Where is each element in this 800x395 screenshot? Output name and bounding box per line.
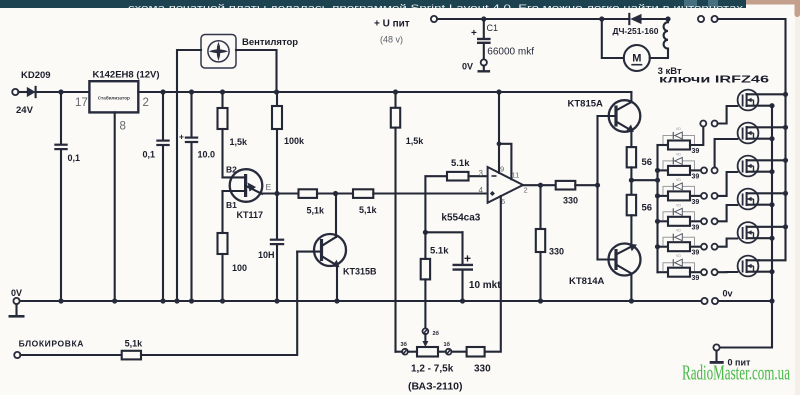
capacitor 10.0 electrolytic bbox=[189, 89, 194, 94]
svg-text:B2: B2 bbox=[226, 165, 237, 175]
diode ДЧ-251-160 bbox=[599, 16, 604, 21]
wire gate row 6 connector bbox=[690, 271, 701, 273]
svg-text:+: + bbox=[179, 132, 184, 142]
capacitor 0,1 output bbox=[160, 89, 165, 94]
svg-text:0,1: 0,1 bbox=[68, 153, 81, 163]
svg-text:+ U пит: + U пит bbox=[374, 19, 410, 30]
svg-text:9: 9 bbox=[500, 165, 504, 174]
ground 0 пит bbox=[715, 351, 717, 362]
wire +U to diode bbox=[437, 18, 629, 20]
0v rail right segment bbox=[718, 300, 772, 302]
wire blocking to KT315B base bbox=[141, 252, 297, 355]
ground C1 bbox=[483, 66, 485, 71]
svg-text:5,1k: 5,1k bbox=[359, 205, 378, 215]
op-amp U1 k554ca3 bbox=[488, 167, 523, 203]
node output bbox=[523, 184, 556, 186]
wire gate row 5 connector bbox=[690, 246, 701, 248]
svg-text:1,2 - 7,5k: 1,2 - 7,5k bbox=[411, 364, 454, 375]
transistor VT1 IRFZ46 bbox=[738, 90, 759, 111]
resistor 5,1k blocking bbox=[20, 354, 121, 356]
transistor KT315B bbox=[314, 234, 346, 266]
wire pin6 down bbox=[485, 196, 501, 352]
svg-text:39: 39 bbox=[692, 148, 700, 155]
svg-text:1,5k: 1,5k bbox=[406, 136, 425, 146]
svg-text:3: 3 bbox=[479, 169, 484, 178]
gate resistor bus bbox=[656, 145, 658, 272]
svg-text:VD: VD bbox=[676, 178, 681, 182]
svg-text:VD: VD bbox=[676, 254, 681, 258]
svg-text:VD: VD bbox=[676, 127, 681, 131]
resistor 56 lower bbox=[627, 195, 636, 216]
transistor VT5 IRFZ46 bbox=[738, 222, 759, 243]
svg-text:0V: 0V bbox=[462, 62, 473, 72]
diode VD3 gate bbox=[663, 186, 695, 195]
svg-text:E: E bbox=[266, 182, 272, 192]
resistor R2 39 gate bbox=[658, 169, 669, 171]
svg-text:39: 39 bbox=[692, 199, 700, 206]
svg-text:39: 39 bbox=[692, 173, 700, 180]
svg-text:10.0: 10.0 bbox=[198, 150, 216, 160]
wire gate row 2 connector bbox=[690, 169, 701, 171]
svg-text:ключи IRFZ46: ключи IRFZ46 bbox=[659, 75, 770, 86]
node driver bases bbox=[595, 183, 600, 188]
svg-text:3б: 3б bbox=[401, 341, 408, 348]
svg-text:100k: 100k bbox=[284, 136, 305, 146]
transistor VT3 IRFZ46 bbox=[738, 156, 759, 177]
wire B1 to resistor 100 bbox=[221, 191, 223, 233]
node RC junction bbox=[423, 230, 428, 235]
svg-text:8: 8 bbox=[120, 121, 126, 133]
svg-text:0v: 0v bbox=[723, 289, 733, 299]
svg-text:5.1k: 5.1k bbox=[451, 158, 470, 169]
svg-text:Вентилятор: Вентилятор bbox=[242, 37, 298, 48]
potentiometer 1,2-7,5k bbox=[417, 347, 438, 357]
terminal 0 пит bbox=[713, 344, 719, 350]
svg-text:5,1k: 5,1k bbox=[125, 339, 144, 349]
capacitor 10H bbox=[276, 194, 278, 239]
resistor 5.1k timing bbox=[421, 259, 430, 280]
wire fan right to +12V rail bbox=[236, 50, 277, 92]
svg-text:KT814A: KT814A bbox=[569, 276, 605, 287]
svg-text:K142EH8 (12V): K142EH8 (12V) bbox=[93, 70, 160, 81]
svg-text:VD: VD bbox=[676, 152, 681, 156]
svg-text:56: 56 bbox=[642, 203, 653, 214]
svg-text:39: 39 bbox=[692, 224, 700, 231]
terminal БЛОКИРОВКА bbox=[14, 352, 20, 358]
svg-text:RadioMaster.com.ua: RadioMaster.com.ua bbox=[682, 361, 790, 385]
diode KD209 bbox=[27, 87, 36, 97]
wire gate row 3 connector bbox=[690, 195, 701, 197]
svg-text:(ВАЗ-2110): (ВАЗ-2110) bbox=[408, 381, 463, 393]
resistor R1 39 gate bbox=[658, 144, 669, 146]
svg-text:10 mkt: 10 mkt bbox=[469, 280, 501, 291]
terminal 0V C1 bbox=[481, 59, 487, 65]
svg-text:1б: 1б bbox=[444, 341, 451, 348]
resistor 5,1k second bbox=[353, 189, 373, 198]
svg-text:17: 17 bbox=[75, 97, 88, 109]
svg-text:2: 2 bbox=[524, 186, 528, 195]
wire emitter line bbox=[262, 192, 299, 194]
ground left bbox=[15, 304, 17, 315]
svg-text:10Н: 10Н bbox=[258, 250, 275, 260]
resistor 5,1k first bbox=[299, 189, 318, 198]
resistor 100k bbox=[276, 92, 278, 106]
svg-text:0,1: 0,1 bbox=[143, 150, 156, 160]
svg-text:M: M bbox=[632, 53, 641, 65]
svg-text:39: 39 bbox=[692, 250, 700, 257]
wire regulator pin8 to 0V bbox=[114, 112, 116, 301]
svg-text:+: + bbox=[471, 28, 477, 39]
node gate bus feed bbox=[629, 178, 634, 183]
svg-text:5.1k: 5.1k bbox=[430, 246, 449, 257]
svg-text:1,5k: 1,5k bbox=[230, 137, 249, 147]
resistor R4 39 gate bbox=[658, 220, 669, 222]
transistor KT814A bbox=[609, 244, 641, 276]
diode VD6 gate bbox=[663, 263, 695, 272]
svg-text:330: 330 bbox=[474, 364, 491, 375]
capacitor 10 mkt bbox=[425, 231, 462, 233]
capacitor 0,1 input bbox=[60, 92, 62, 144]
transistor VT2 IRFZ46 bbox=[738, 123, 759, 144]
svg-text:+: + bbox=[464, 252, 471, 266]
inductor motor choke bbox=[665, 16, 670, 21]
transistor B2 KT117 unijunction bbox=[230, 169, 263, 202]
transistor KT815A bbox=[609, 100, 641, 132]
svg-text:ДЧ-251-160: ДЧ-251-160 bbox=[613, 26, 659, 36]
wire source rail bbox=[720, 106, 772, 348]
resistor R3 39 gate bbox=[658, 195, 669, 197]
svg-text:0V: 0V bbox=[11, 288, 22, 298]
wiper tap node bbox=[423, 328, 429, 334]
resistor 5.1k to pin3 bbox=[425, 176, 447, 232]
terminal 0V bbox=[13, 298, 19, 304]
svg-text:100: 100 bbox=[232, 263, 247, 273]
svg-text:Стабилизатор: Стабилизатор bbox=[98, 95, 130, 101]
wire fan left to 0V bbox=[177, 50, 201, 301]
resistor R5 39 gate bbox=[658, 246, 669, 248]
svg-text:KD209: KD209 bbox=[21, 70, 51, 81]
svg-text:(48 v): (48 v) bbox=[380, 35, 403, 45]
svg-text:5,1k: 5,1k bbox=[307, 206, 326, 216]
svg-text:330: 330 bbox=[549, 247, 564, 257]
diode VD4 gate bbox=[663, 212, 695, 221]
resistor 56 upper bbox=[627, 147, 636, 167]
diode VD2 gate bbox=[663, 161, 695, 170]
svg-text:KT117: KT117 bbox=[237, 210, 264, 220]
node input cap junction bbox=[58, 89, 63, 94]
connector 0v pair bbox=[701, 298, 707, 304]
svg-text:11: 11 bbox=[512, 171, 520, 180]
wire op-amp supply bbox=[496, 89, 501, 94]
capacitor C1 66000 mkf bbox=[481, 16, 486, 21]
svg-text:4: 4 bbox=[479, 186, 484, 195]
svg-text:VD: VD bbox=[676, 203, 681, 207]
svg-text:C1: C1 bbox=[487, 23, 499, 33]
svg-text:KT315B: KT315B bbox=[343, 267, 377, 277]
svg-text:39: 39 bbox=[692, 275, 700, 282]
regulator U1 K142EH8 bbox=[89, 81, 138, 112]
svg-text:24V: 24V bbox=[16, 105, 34, 116]
resistor 330 output bbox=[556, 181, 576, 190]
terminal 24V input bbox=[12, 89, 18, 95]
resistor 100 bbox=[218, 233, 228, 254]
resistor 330 pot bbox=[452, 351, 467, 353]
resistor 330 to 0V bbox=[539, 185, 541, 229]
wire gate row 1 connector bbox=[690, 127, 703, 145]
motor M 3kW bbox=[602, 19, 624, 58]
diode VD5 gate bbox=[663, 237, 695, 246]
svg-text:B1: B1 bbox=[226, 200, 237, 210]
svg-text:66000 mkf: 66000 mkf bbox=[487, 47, 534, 58]
svg-text:k554ca3: k554ca3 bbox=[441, 213, 480, 224]
connector top pair bbox=[698, 16, 704, 22]
fan Вентилятор bbox=[201, 35, 236, 69]
svg-text:330: 330 bbox=[563, 196, 578, 206]
resistor R6 39 gate bbox=[658, 271, 669, 273]
wire gate row 4 connector bbox=[690, 220, 701, 222]
0V rail bbox=[17, 300, 702, 302]
resistor 1,5k second bbox=[393, 89, 398, 94]
svg-text:БЛОКИРОВКА: БЛОКИРОВКА bbox=[19, 339, 84, 349]
svg-text:2б: 2б bbox=[433, 330, 440, 337]
wire to drain rail bbox=[718, 19, 786, 260]
svg-text:KT815A: KT815A bbox=[568, 99, 604, 110]
diode VD1 gate bbox=[663, 136, 695, 145]
svg-text:VD: VD bbox=[676, 229, 681, 233]
wire regulator output bbox=[138, 91, 631, 93]
wire 24V to regulator bbox=[18, 91, 26, 93]
svg-text:2: 2 bbox=[143, 97, 149, 109]
transistor VT4 IRFZ46 bbox=[738, 189, 759, 210]
transistor VT6 IRFZ46 bbox=[738, 256, 759, 277]
resistor 1,5k left bbox=[220, 89, 225, 94]
svg-text:56: 56 bbox=[642, 157, 653, 168]
